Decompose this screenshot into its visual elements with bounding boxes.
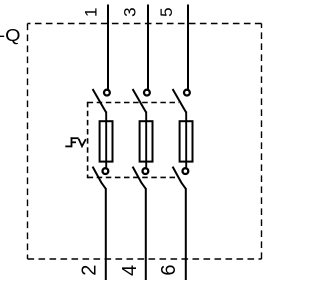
pole 2: bottom switch blade bbox=[133, 167, 146, 189]
pole 3: top switch blade bbox=[173, 89, 187, 113]
pole 2: top switch blade bbox=[133, 89, 147, 113]
pole 2: top fixed contact circle bbox=[144, 90, 150, 96]
mechanical linkage: left dashed bar bbox=[87, 102, 89, 179]
pole 3: top wire (terminal 5) bbox=[187, 5, 189, 90]
svg-text:3: 3 bbox=[121, 7, 140, 16]
svg-text:1: 1 bbox=[82, 8, 101, 17]
pole 1: fuse link wire bbox=[105, 112, 107, 168]
outer device boundary: right dashed edge bbox=[261, 24, 263, 260]
pole 2: bottom fixed contact circle bbox=[143, 168, 149, 174]
outer device boundary: bottom dashed edge bbox=[28, 258, 262, 260]
pole 1: fuse F1 body bbox=[100, 121, 113, 161]
outer device boundary: left dashed edge bbox=[27, 24, 29, 260]
mechanical linkage: top dashed bar bbox=[88, 102, 179, 104]
pole 3: top fixed contact circle bbox=[184, 90, 190, 96]
pole 1: top switch blade bbox=[93, 89, 107, 113]
pole 2: fuse link wire bbox=[145, 112, 147, 168]
pole 3: bottom fixed contact circle bbox=[183, 168, 189, 174]
svg-text:5: 5 bbox=[157, 7, 176, 16]
svg-text:4: 4 bbox=[119, 265, 141, 276]
actuator arrow check bbox=[79, 139, 86, 146]
pole 3: fuse link wire bbox=[185, 112, 187, 168]
pole 1: top fixed contact circle bbox=[104, 90, 110, 96]
svg-text:6: 6 bbox=[158, 264, 180, 275]
pole 3: fuse F3 body bbox=[180, 121, 193, 161]
svg-text:-Q: -Q bbox=[0, 25, 20, 45]
pole 2: top wire (terminal 3) bbox=[147, 5, 149, 90]
pole 3: bottom wire (terminal 6) bbox=[185, 188, 187, 280]
pole 1: bottom wire (terminal 2) bbox=[105, 188, 107, 280]
pole 1: bottom fixed contact circle bbox=[103, 168, 109, 174]
pole 2: fuse F2 body bbox=[140, 121, 153, 161]
svg-text:2: 2 bbox=[79, 265, 101, 276]
pole 1: top wire (terminal 1) bbox=[107, 5, 109, 90]
pole 1: bottom switch blade bbox=[93, 167, 106, 189]
outer device boundary: top dashed edge bbox=[28, 23, 262, 25]
mechanical linkage: bottom dashed bar bbox=[88, 176, 179, 178]
pole 2: bottom wire (terminal 4) bbox=[145, 188, 147, 280]
pole 3: bottom switch blade bbox=[173, 167, 186, 189]
actuator symbol (manual operation by pulling) bbox=[65, 137, 78, 147]
